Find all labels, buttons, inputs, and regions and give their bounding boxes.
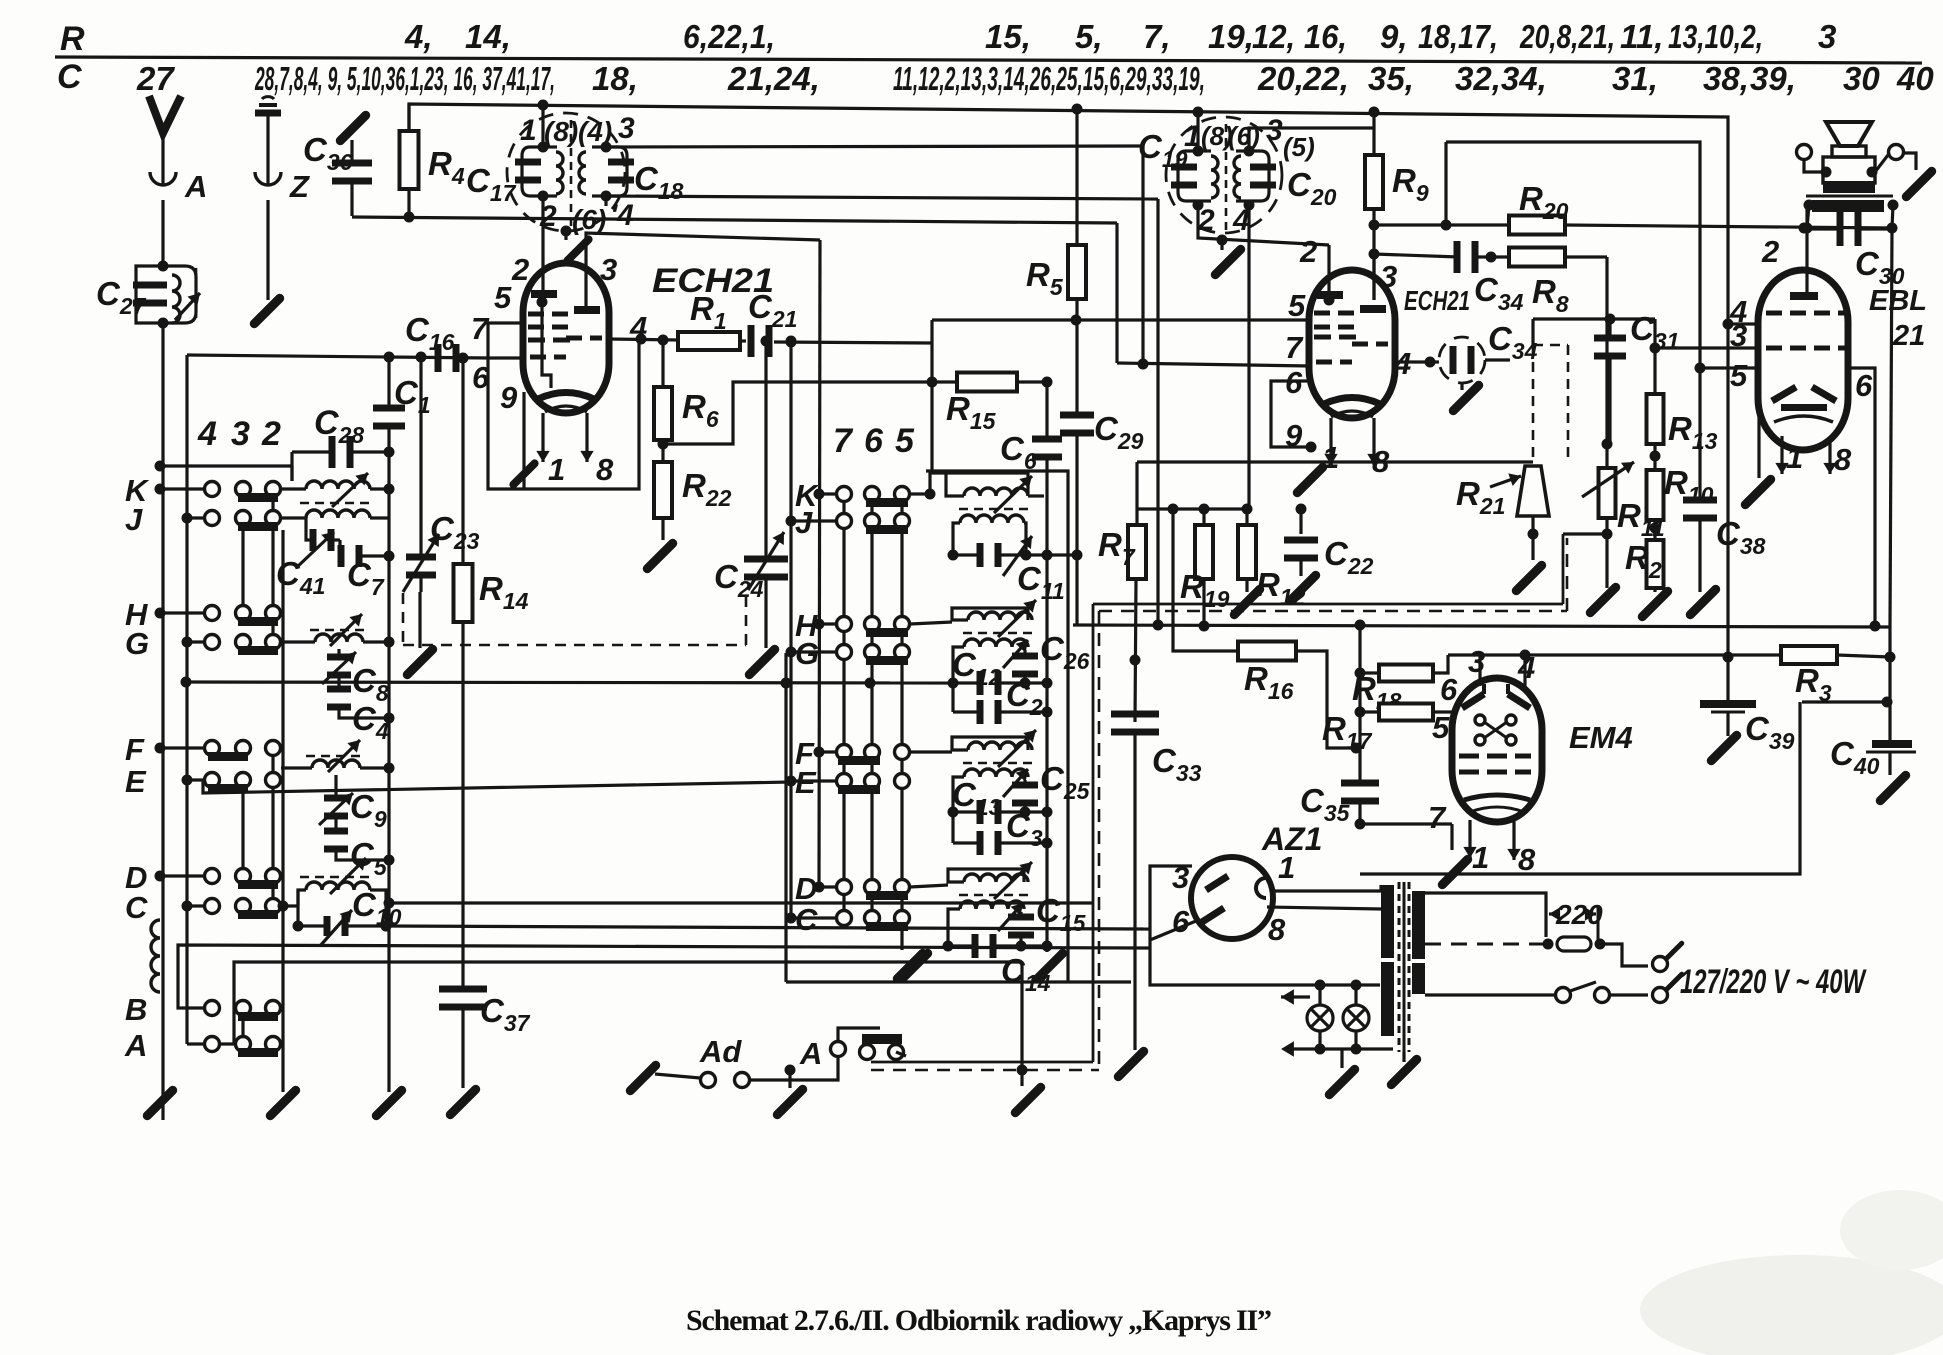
node V4 pin6: [1440, 672, 1458, 707]
tube V3 beam plates: [1772, 387, 1836, 401]
resistor R6: [654, 387, 719, 440]
tube V2 pin4 wire: [1396, 357, 1436, 368]
svg-text:11,: 11,: [1620, 18, 1663, 55]
node C-row number 30: [1843, 60, 1880, 97]
node V4 pin5: [1432, 710, 1450, 745]
wire C24 drop: [786, 336, 797, 522]
svg-text:1: 1: [548, 452, 565, 487]
ground under R22: [647, 543, 672, 568]
tube V1 pin4 wire: [609, 334, 678, 346]
svg-text:B: B: [125, 992, 147, 1027]
wire osc col x930: [930, 343, 933, 473]
svg-text:27: 27: [136, 60, 175, 97]
wire antenna down: [161, 200, 164, 266]
switch S2g contacts D: [814, 880, 910, 901]
tube V3 EBL21: [1758, 270, 1927, 450]
wire row line L1: [384, 898, 1095, 909]
capacitor C4: [327, 674, 395, 744]
wire pin4-AVC down: [1156, 199, 1159, 625]
node V1 pin2: [511, 252, 529, 287]
capacitor C30: [1807, 212, 1905, 289]
ground under Z: [254, 298, 279, 323]
svg-text:13,10,2,: 13,10,2,: [1668, 18, 1763, 55]
tube V5 pin notch: [1256, 878, 1266, 898]
switch S2c contacts H: [814, 617, 910, 638]
tube V2 hex dashes: [1314, 335, 1356, 340]
capacitor C15: [1008, 892, 1087, 952]
node C-row number 35,: [1368, 60, 1414, 97]
tube V2 dash row2: [1316, 344, 1388, 362]
wire left bank top: [155, 461, 293, 482]
tube V1 dash row2: [530, 338, 602, 357]
node T1 pin2: [539, 200, 557, 233]
wire H tank stub: [910, 622, 952, 624]
node R-row 13102: [1668, 18, 1763, 55]
capacitor C24: [714, 336, 788, 649]
svg-text:32,34,: 32,34,: [1455, 60, 1547, 97]
node R-row 1216: [1252, 18, 1347, 55]
transformer T4 H-G: [952, 600, 1038, 647]
wire V5 pin6: [1150, 921, 1196, 940]
svg-text:Ad: Ad: [699, 1034, 742, 1069]
wire V5 pin3: [1150, 866, 1380, 985]
svg-text:21: 21: [1892, 320, 1925, 352]
svg-text:C: C: [57, 58, 82, 96]
node T2 pin1: [1184, 120, 1201, 153]
svg-text:8: 8: [1268, 912, 1286, 947]
wire T1 frame gnd: [561, 196, 607, 261]
svg-text:3: 3: [618, 112, 635, 145]
node R-row number 4,: [404, 18, 433, 55]
switch S1h contacts C: [182, 899, 281, 920]
node V1 pin6: [472, 360, 490, 395]
node R-row number 5,: [1075, 18, 1103, 55]
node V3 pin6: [1855, 368, 1873, 403]
tube V2 pin2 wire: [1324, 245, 1335, 306]
wire col links x243: [241, 518, 244, 1044]
tube V2 heater arrows: [1324, 418, 1380, 465]
capacitor C27: [96, 261, 200, 329]
svg-text:9: 9: [500, 380, 518, 415]
capacitor C3: [953, 807, 1053, 855]
tube V5 anode slashes: [1202, 876, 1228, 922]
node col3 label: [231, 415, 250, 453]
capacitor C37: [439, 986, 531, 1089]
node mid col5 label: [895, 422, 915, 460]
wire row line L3: [178, 945, 1150, 1008]
svg-text:1: 1: [1786, 440, 1803, 475]
node V5 pin8: [1268, 912, 1286, 947]
ground Ad left: [630, 1065, 655, 1090]
coil T1 secondary: [579, 152, 586, 194]
svg-text:'4: '4: [610, 199, 634, 232]
tube V3 dash row2: [1766, 346, 1848, 351]
svg-text:A: A: [184, 169, 207, 204]
tube V2 ECH21: [1309, 270, 1470, 418]
wire mid col x844: [842, 502, 845, 918]
svg-text:6: 6: [1855, 368, 1873, 403]
resistor R13: [1647, 319, 1718, 470]
svg-text:39,: 39,: [1750, 60, 1796, 97]
resistor R14: [454, 358, 529, 990]
tube V1 pin2 inner: [542, 302, 551, 388]
svg-text:2: 2: [511, 252, 529, 287]
svg-text:15,: 15,: [985, 18, 1031, 55]
transformer L4 D-C: [278, 858, 387, 926]
resistor R9: [1365, 107, 1429, 301]
resistor R8: [1509, 248, 1607, 318]
capacitor C36: [303, 115, 372, 216]
wire rail R: [55, 57, 1922, 63]
wire OT right down: [1892, 205, 1893, 228]
transformer TR primary right: [1412, 891, 1425, 994]
resistor R16: [1173, 509, 1362, 754]
tube V3 cathode: [1774, 404, 1833, 422]
node mid row E label: [795, 765, 817, 800]
wire Ad: [655, 1074, 700, 1078]
resistor R3: [1781, 646, 1890, 706]
node mid row H label: [795, 608, 818, 643]
antenna plug A: [150, 169, 207, 204]
tube V1 ECH21: [523, 262, 774, 413]
ground under R21: [1516, 565, 1541, 590]
wire R1-C21: [740, 339, 746, 342]
ground under C22: [1290, 575, 1315, 600]
wire mid col x872: [870, 502, 873, 918]
node T1 pin4t: [578, 116, 612, 147]
capacitor C19: [1138, 128, 1211, 211]
wire R6-R22: [658, 439, 669, 463]
node V3 pin5: [1730, 358, 1748, 393]
node R-row number 7,: [1143, 18, 1171, 55]
svg-text:F: F: [125, 732, 145, 767]
wire R22 gnd: [661, 518, 664, 540]
svg-text:8: 8: [1518, 842, 1536, 877]
resistor R1: [678, 290, 740, 350]
node T2 pin4: [1232, 204, 1250, 237]
svg-text:3: 3: [1266, 114, 1283, 147]
node T1 pin6: [572, 204, 606, 235]
svg-text:ECH21: ECH21: [1404, 285, 1470, 316]
wire top of R7 group: [1137, 504, 1253, 526]
capacitor C41: [276, 518, 340, 599]
node V1 pin4: [629, 310, 647, 345]
wire T2 pin1 up: [1193, 107, 1204, 152]
node T2 pin8: [1201, 121, 1233, 151]
wire y319: [1533, 314, 1655, 325]
svg-text:21,24,: 21,24,: [727, 60, 820, 97]
capacitor C39: [1700, 657, 1795, 754]
wire T1 pin1 up: [538, 100, 549, 148]
resistor R20: [1509, 180, 1898, 235]
wire mid col x819: [819, 240, 820, 887]
resistor R22: [654, 462, 732, 518]
svg-text:7: 7: [1285, 330, 1304, 365]
capacitor C28: [292, 404, 395, 468]
capacitor C9: [319, 775, 387, 832]
tube V1 heater arrows: [536, 413, 593, 462]
node col4 label: [197, 415, 217, 453]
svg-text:A: A: [799, 1036, 822, 1071]
node V2 pin7: [1285, 330, 1304, 365]
tube V2 pin3 wire: [1372, 254, 1375, 300]
svg-text:6: 6: [1440, 672, 1458, 707]
capacitor C18: [592, 142, 684, 205]
wire x186 branch: [185, 355, 188, 1044]
potentiometer R11: [1582, 462, 1665, 541]
svg-text:6: 6: [1172, 904, 1190, 939]
node V2 pin3: [1380, 259, 1397, 294]
tube V2 cathode: [1324, 398, 1380, 418]
IF transformer T2 shield: [1166, 117, 1282, 233]
node V4 pin3: [1468, 644, 1485, 679]
node V2 pin6: [1285, 365, 1303, 400]
ground under antenna line: [147, 1090, 172, 1115]
svg-text:1: 1: [520, 114, 537, 147]
loudspeaker terminal right: [1867, 145, 1917, 178]
svg-text:1: 1: [1472, 840, 1489, 875]
tube V2 grid top bar: [1317, 291, 1343, 299]
node V3 pin4: [1729, 294, 1747, 329]
wire T1 pin4 right: [606, 196, 1158, 199]
wire OT left down: [1802, 205, 1813, 234]
svg-text:2: 2: [1299, 234, 1317, 269]
wire row line L2: [381, 921, 1151, 932]
ground under C37: [450, 1089, 475, 1114]
capacitor C23: [403, 357, 480, 592]
transformer TR core: [1399, 882, 1409, 1052]
ground under C40: [1880, 752, 1905, 801]
wire heater line top: [1281, 980, 1362, 1005]
ground under x902: [897, 953, 922, 978]
wire y655 line: [1448, 650, 1781, 663]
node mid col6 label: [864, 422, 884, 460]
tube V3 pin4 stub: [1723, 319, 1761, 330]
node row K label: [125, 473, 150, 508]
svg-text:3: 3: [1380, 259, 1397, 294]
node V3 pin1: [1786, 440, 1803, 475]
node T1 pin3: [618, 112, 635, 145]
tube V1 cathode: [538, 393, 594, 413]
node R-row 1817: [1418, 18, 1498, 55]
lamp dial 1: [1307, 986, 1333, 1049]
tube V3 pin3 stub: [1655, 346, 1759, 349]
svg-text:4,: 4,: [404, 18, 433, 55]
switch S1c contacts H: [155, 606, 281, 627]
wire R7 feed: [1135, 462, 1138, 509]
tube V4 cathode: [1464, 795, 1530, 812]
capacitor C34 shielded: [1430, 320, 1538, 383]
wire R20 line: [1374, 223, 1509, 226]
tube V3 top bar: [1790, 292, 1818, 300]
capacitor C22: [1284, 504, 1374, 580]
node V1 pin7: [471, 311, 490, 346]
wire mid col x791: [789, 521, 792, 918]
node C-row long1: [254, 60, 555, 97]
ground under C39: [1711, 712, 1736, 761]
ground bottom x1020: [1015, 962, 1040, 1113]
shield bus dashed: [871, 538, 1567, 1070]
ground under C34sh: [1453, 383, 1478, 411]
IF transformer T1 shield: [507, 113, 625, 231]
svg-text:Z: Z: [289, 169, 310, 204]
node mid row J label: [795, 505, 813, 540]
transformer L1 K-J: [281, 473, 395, 518]
caption text: [686, 1304, 1272, 1337]
node V4 pin7: [1428, 800, 1447, 835]
svg-text:R: R: [60, 20, 85, 58]
capacitor C14: [943, 903, 1053, 996]
svg-text:6,22,1,: 6,22,1,: [683, 18, 775, 55]
capacitor C10: [293, 886, 402, 946]
coil T2 primary: [1211, 156, 1218, 198]
node V4 pin1: [1472, 840, 1489, 875]
ganging dash link: [403, 592, 746, 645]
transformer L2 H-G: [281, 614, 395, 648]
switch S1j contacts A: [187, 1037, 281, 1058]
node mid col7 label: [833, 422, 854, 460]
node R-row number 14,: [465, 18, 511, 55]
tube V1 bracket 7-9: [488, 323, 639, 489]
scan noise corner: [1640, 1190, 1943, 1355]
svg-text:3: 3: [600, 252, 617, 287]
svg-text:C: C: [125, 890, 148, 925]
capacitor C33: [1111, 711, 1202, 1051]
core T2: [1225, 124, 1228, 230]
wire left col x389: [387, 357, 390, 1092]
node V2 pin5: [1288, 288, 1306, 323]
wire R12 top: [1245, 509, 1248, 525]
resistor R10: [1647, 464, 1714, 540]
node col2 label: [261, 415, 281, 453]
wire pin7 down: [1450, 824, 1453, 850]
switch S1g contacts D: [155, 869, 281, 890]
node T1 pin4b: [610, 199, 634, 232]
tube V2 bracket: [1271, 381, 1317, 453]
capacitor C16: [405, 311, 460, 372]
label mains: [1680, 963, 1867, 1001]
svg-text:28,7,8,4, 9, 5,10,36,1,23, 16,: 28,7,8,4, 9, 5,10,36,1,23, 16, 37,41,17,: [254, 60, 555, 97]
svg-text:A: A: [124, 1028, 147, 1063]
capacitor C38: [1683, 497, 1766, 593]
capacitor C34b: [1374, 241, 1524, 315]
wire T3 sec box: [953, 523, 1026, 555]
wire T2 pin4 down: [1247, 205, 1250, 509]
node row G label: [125, 626, 149, 661]
ground mid left: [902, 953, 927, 978]
switch S2f contacts E: [786, 774, 910, 795]
wire bus B: [409, 104, 1728, 657]
node R-row number 19,: [1208, 18, 1254, 55]
wire R11 bottom: [1563, 518, 1613, 588]
transformer T6 D-C: [948, 862, 1034, 909]
svg-text:3: 3: [1818, 18, 1836, 55]
node C-row number 38,: [1703, 60, 1749, 97]
ground under lamps: [1329, 1049, 1354, 1095]
svg-text:J: J: [125, 502, 143, 537]
node row A label: [124, 1028, 147, 1063]
wire bus drop x1117: [1117, 223, 1310, 366]
terminal A2: [735, 1036, 823, 1088]
node R-row number 11,: [1620, 18, 1663, 55]
rectifier V5 AZ1: [1191, 821, 1322, 939]
capacitor C20: [1236, 146, 1337, 211]
wire T1 pin3 right: [606, 146, 1143, 147]
node V5 pin3: [1172, 860, 1189, 895]
tube V3 cathode gnd wire: [1757, 403, 1760, 478]
wire osc line y320: [774, 315, 1312, 344]
wire R6 junction to R15: [663, 382, 957, 444]
ground V3 cathode: [1745, 479, 1770, 504]
capacitor C26: [1012, 630, 1090, 689]
node R-row 20821: [1519, 18, 1615, 55]
svg-text:2: 2: [261, 415, 281, 453]
switch S1e contacts F: [155, 741, 281, 762]
node V2 pin9: [1285, 418, 1303, 453]
svg-text:Schemat 2.7.6./II. Odbiornik r: Schemat 2.7.6./II. Odbiornik radiowy „Ka…: [686, 1304, 1272, 1337]
coil T2 secondary: [1234, 156, 1241, 198]
switch S2a contacts K: [814, 487, 910, 508]
mains terminal 2: [1653, 974, 1682, 1002]
node V4 pin4: [1517, 650, 1535, 685]
tube V2 grid dashes: [1314, 313, 1354, 327]
potentiometer R21: [1456, 466, 1549, 519]
capacitor C13: [948, 769, 1053, 824]
tube V4 dash rows: [1459, 756, 1531, 772]
svg-text:38,: 38,: [1703, 60, 1749, 97]
resistor R12: [1238, 525, 1306, 610]
svg-text:7,: 7,: [1143, 18, 1171, 55]
capacitor C21: [748, 288, 798, 357]
core T1: [570, 120, 573, 228]
capacitor C7: [338, 540, 395, 600]
node mid row K label: [795, 478, 820, 513]
switch S1f contacts E: [182, 773, 281, 794]
svg-text:18,: 18,: [592, 60, 638, 97]
node C label: [57, 58, 82, 96]
resistor R18: [1352, 655, 1448, 714]
ground under x283: [270, 1090, 295, 1115]
switch S2d contacts G: [786, 645, 910, 666]
node C-row number 40: [1896, 60, 1934, 97]
capacitor C35: [1300, 780, 1452, 830]
wire V5 pin8: [1267, 907, 1381, 909]
wire T1 pin2 down: [541, 196, 544, 303]
capacitor C1: [373, 374, 431, 430]
svg-text:(6): (6): [572, 204, 606, 235]
svg-text:19,: 19,: [1208, 18, 1254, 55]
svg-text:(8): (8): [544, 116, 578, 147]
tube V4 pin4 wire: [1523, 655, 1526, 686]
wire col links x273: [271, 489, 274, 906]
svg-text:7: 7: [1428, 800, 1447, 835]
mains switch: [1425, 982, 1648, 1003]
wire F tank stub: [910, 750, 952, 753]
capacitor C29: [1060, 410, 1144, 454]
node C-row number 22,: [1302, 60, 1349, 97]
ground under R11: [1590, 587, 1615, 612]
resistor R2: [1625, 539, 1664, 592]
wire D tank stub: [910, 885, 948, 887]
node T2 pin3: [1266, 114, 1283, 147]
svg-text:6: 6: [864, 422, 884, 460]
node V1 pin1: [548, 452, 565, 487]
wire mid x1047: [1045, 382, 1048, 946]
switch heater contact: [860, 1034, 907, 1060]
lamp dial 2: [1343, 986, 1369, 1049]
ground under T2: [1215, 240, 1240, 275]
svg-text:30: 30: [1843, 60, 1880, 97]
